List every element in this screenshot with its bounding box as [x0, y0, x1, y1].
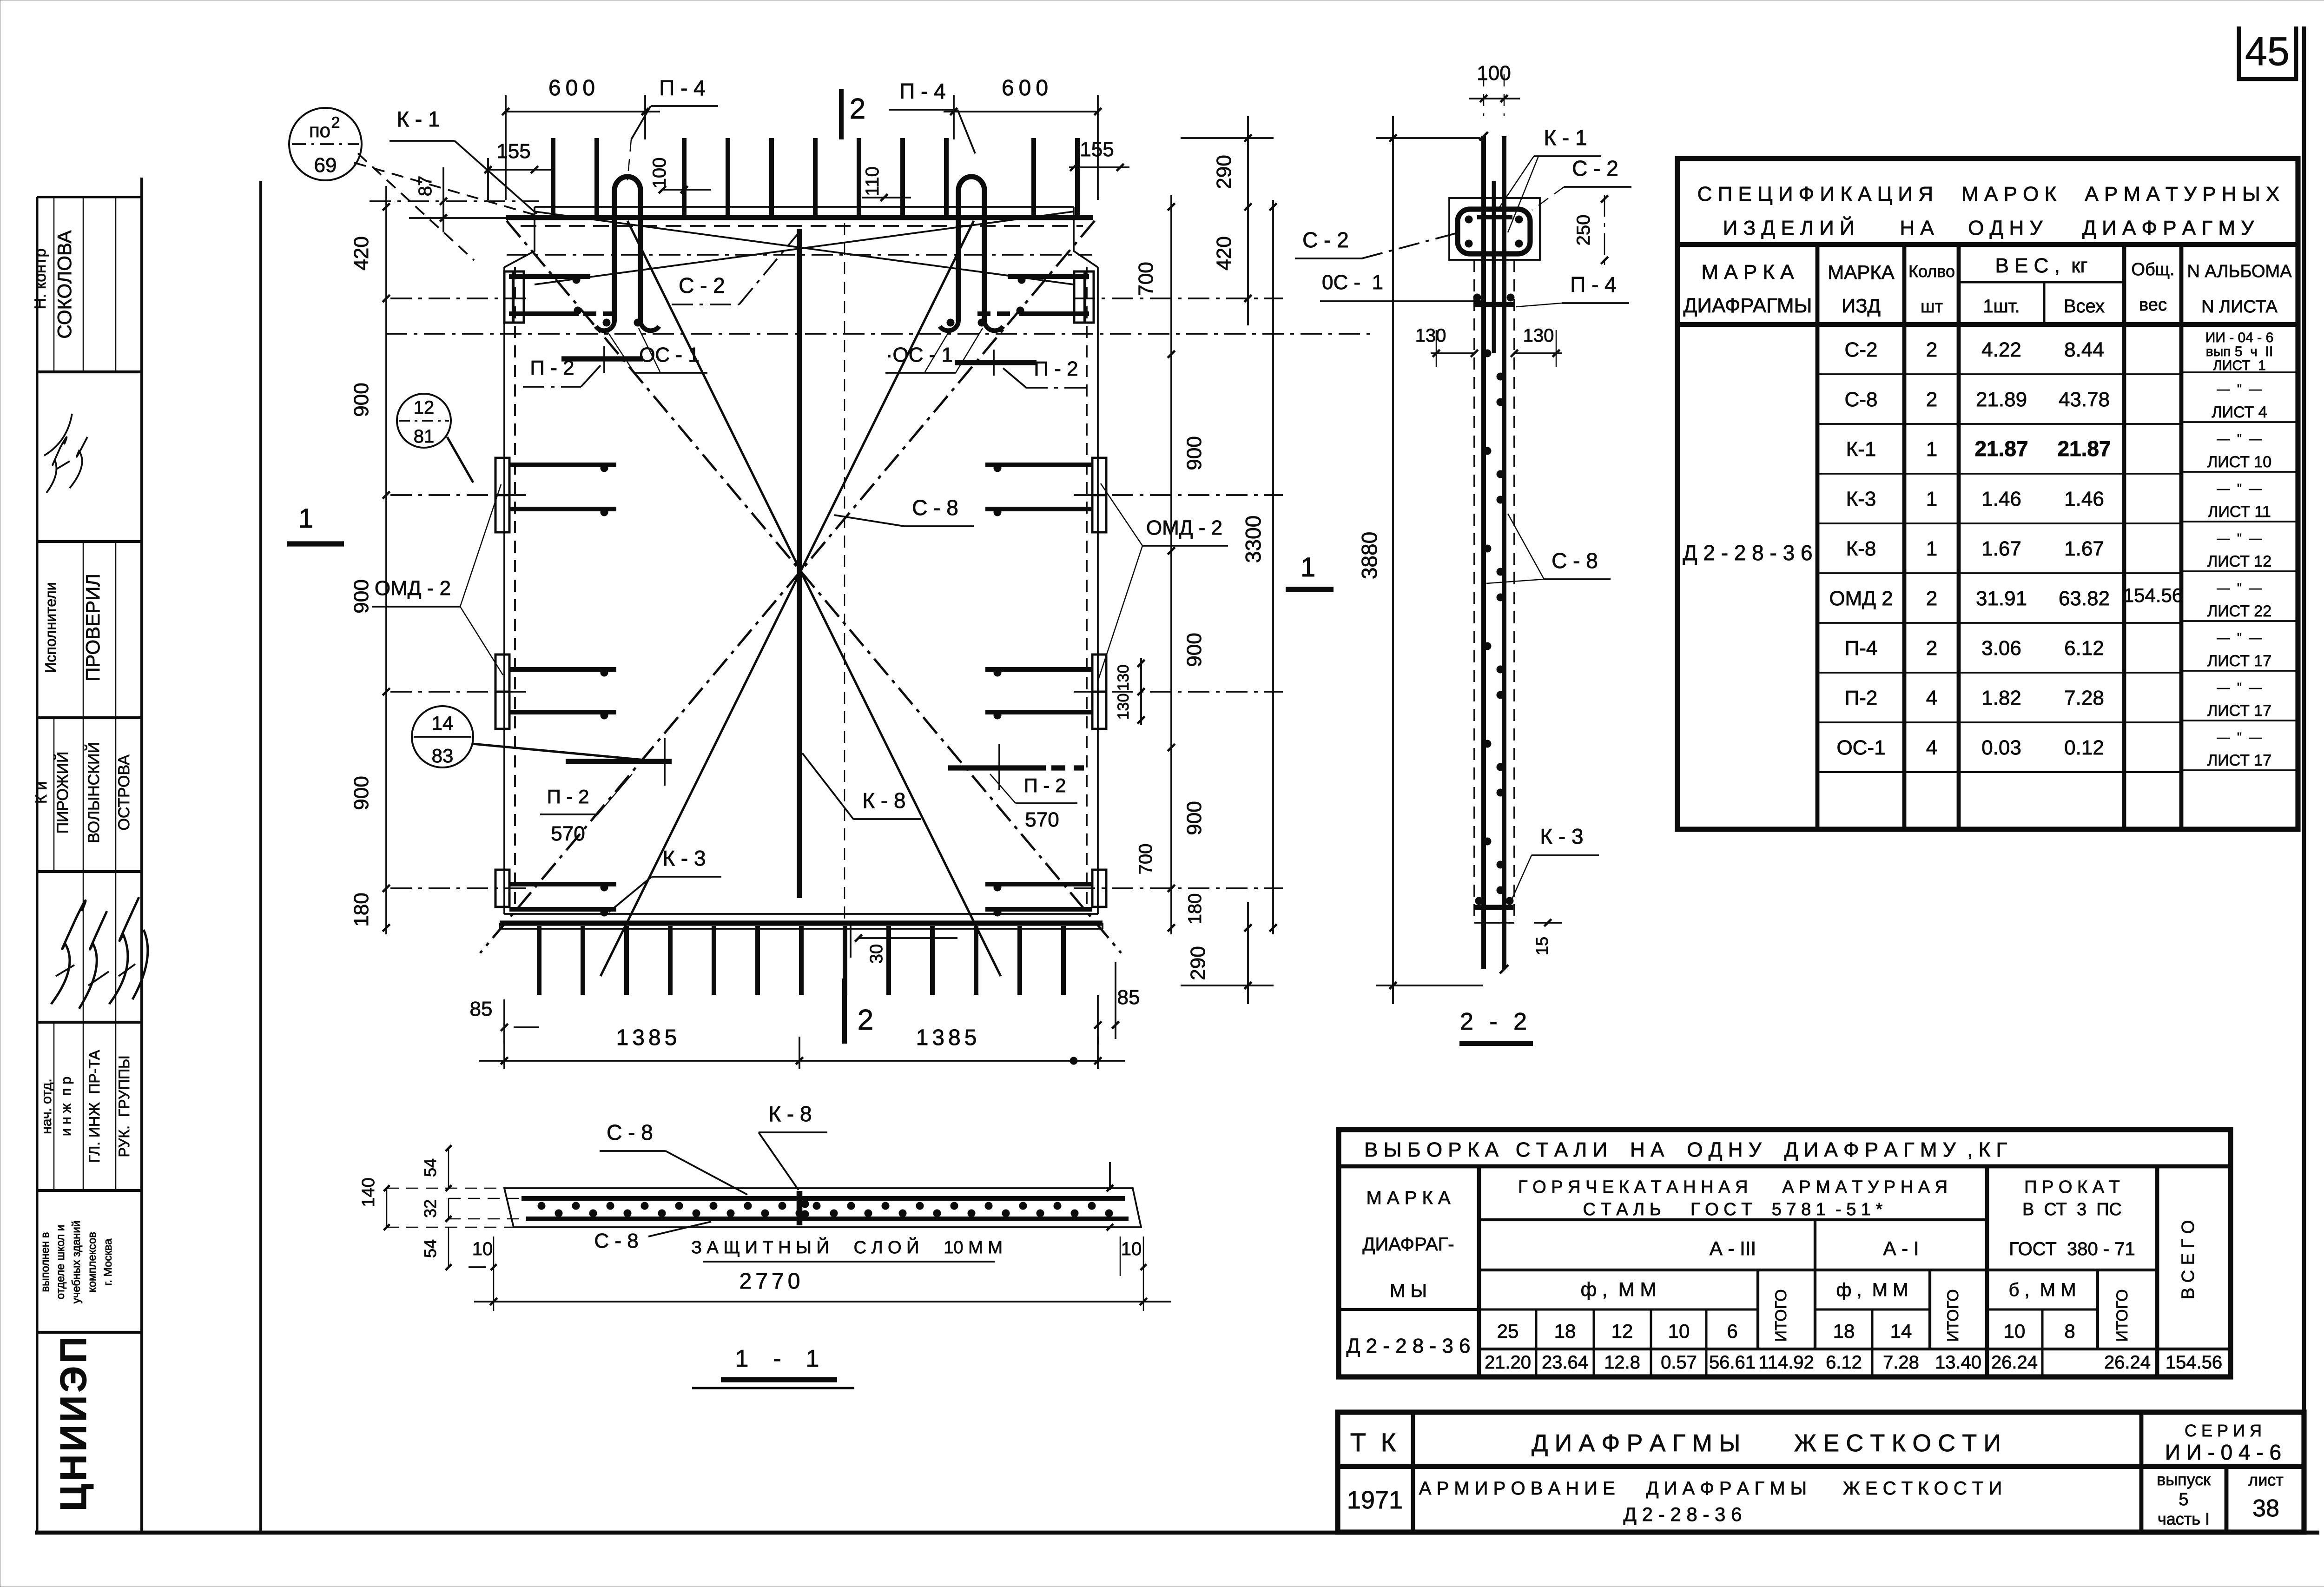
svg-text:— " —: — " — — [2217, 680, 2262, 694]
svg-text:570: 570 — [551, 822, 585, 845]
svg-text:1.46: 1.46 — [1981, 488, 2021, 510]
svg-text:С - 2: С - 2 — [1572, 156, 1618, 180]
svg-text:13.40: 13.40 — [1935, 1352, 1981, 1373]
svg-text:СОКОЛОВА: СОКОЛОВА — [53, 230, 75, 338]
steel table outer border — [1339, 1130, 2231, 1377]
section 2-2 tie near cage — [1477, 215, 1512, 219]
svg-text:ИТОГО: ИТОГО — [1772, 1289, 1790, 1342]
svg-text:шт: шт — [1921, 297, 1943, 317]
svg-text:С - 2: С - 2 — [1302, 228, 1349, 252]
svg-text:31.91: 31.91 — [1976, 587, 2027, 610]
svg-text:130: 130 — [1115, 694, 1132, 720]
steel table size cells — [1535, 1309, 1538, 1377]
svg-text:ИТОГО: ИТОГО — [1944, 1289, 1962, 1342]
svg-text:8: 8 — [2064, 1320, 2075, 1342]
svg-text:ГОСТ 380 - 71: ГОСТ 380 - 71 — [2009, 1239, 2135, 1259]
svg-text:по: по — [309, 119, 330, 141]
svg-text:600: 600 — [1002, 76, 1053, 100]
svg-text:900: 900 — [1183, 436, 1206, 470]
svg-text:П - 4: П - 4 — [899, 79, 946, 103]
svg-text:420: 420 — [1213, 236, 1235, 270]
svg-text:учебных зданий: учебных зданий — [70, 1221, 83, 1303]
sheet number box "45" — [2239, 26, 2296, 79]
svg-text:лист: лист — [2248, 1470, 2284, 1489]
svg-text:1шт.: 1шт. — [1983, 296, 2020, 317]
svg-text:— " —: — " — — [2217, 431, 2262, 446]
svg-text:14: 14 — [432, 712, 454, 734]
right dim chain B 290/420 — [1247, 116, 1249, 325]
svg-text:А - III: А - III — [1710, 1237, 1756, 1259]
spec table row lines — [1817, 373, 2181, 375]
svg-text:ЛИСТ 10: ЛИСТ 10 — [2207, 453, 2271, 471]
svg-text:К-8: К-8 — [1846, 537, 1876, 560]
central vertical bar K-8 — [797, 229, 802, 898]
svg-text:Т К: Т К — [1350, 1428, 1400, 1457]
svg-text:ИТОГО: ИТОГО — [2113, 1289, 2131, 1342]
svg-text:— " —: — " — — [2217, 382, 2262, 396]
svg-text:0.12: 0.12 — [2064, 736, 2104, 759]
svg-text:100: 100 — [1477, 62, 1511, 85]
svg-text:Общ.: Общ. — [2131, 260, 2174, 279]
svg-text:М Ы: М Ы — [1390, 1281, 1427, 1301]
svg-text:П - 4: П - 4 — [659, 76, 706, 100]
svg-text:ЛИСТ 17: ЛИСТ 17 — [2207, 652, 2271, 670]
P-2 side bars left — [509, 463, 616, 467]
svg-text:2: 2 — [858, 1004, 873, 1036]
svg-text:Д 2 - 2 8 - 3 6: Д 2 - 2 8 - 3 6 — [1624, 1503, 1742, 1525]
callout circle po2/69 — [289, 108, 362, 180]
svg-text:570: 570 — [1025, 808, 1059, 831]
svg-text:С-2: С-2 — [1845, 338, 1878, 361]
svg-text:Д 2 - 2 8 - 3 6: Д 2 - 2 8 - 3 6 — [1346, 1335, 1470, 1357]
svg-text:250: 250 — [1573, 215, 1594, 246]
svg-text:180: 180 — [350, 893, 373, 926]
svg-text:1: 1 — [1926, 438, 1937, 461]
svg-text:110: 110 — [862, 166, 883, 196]
spec table outer border — [1677, 159, 2298, 829]
svg-text:900: 900 — [350, 776, 373, 810]
dim 600 left top — [506, 111, 660, 112]
svg-text:130: 130 — [1523, 325, 1554, 346]
svg-text:2: 2 — [1926, 637, 1937, 660]
svg-text:140: 140 — [359, 1177, 378, 1207]
svg-text:1: 1 — [1301, 552, 1315, 582]
svg-text:130: 130 — [1115, 665, 1132, 691]
svg-text:54: 54 — [421, 1158, 440, 1177]
svg-text:6.12: 6.12 — [2064, 637, 2104, 660]
svg-text:21.87: 21.87 — [1974, 436, 2028, 461]
svg-text:85: 85 — [1117, 986, 1140, 1009]
svg-text:25: 25 — [1497, 1320, 1519, 1342]
svg-text:12.8: 12.8 — [1604, 1352, 1640, 1373]
svg-text:4.22: 4.22 — [1981, 338, 2021, 361]
svg-text:ф , М М: ф , М М — [1581, 1278, 1657, 1300]
svg-text:В СТ 3 ПС: В СТ 3 ПС — [2022, 1200, 2122, 1219]
svg-text:ЛИСТ 22: ЛИСТ 22 — [2207, 602, 2271, 620]
svg-text:1.82: 1.82 — [1981, 687, 2021, 709]
svg-text:7.28: 7.28 — [1883, 1352, 1919, 1373]
svg-text:83: 83 — [432, 745, 454, 767]
svg-text:21.87: 21.87 — [2057, 436, 2111, 461]
svg-text:32: 32 — [421, 1199, 440, 1218]
dim 600 right top — [944, 111, 1098, 112]
bottom protruding dowels — [537, 926, 541, 995]
strip signature scribbles block 1 — [46, 437, 66, 493]
svg-text:К - 3: К - 3 — [1540, 824, 1583, 848]
svg-text:ПРОВЕРИЛ: ПРОВЕРИЛ — [82, 574, 104, 681]
svg-text:63.82: 63.82 — [2059, 587, 2110, 610]
svg-text:1971: 1971 — [1347, 1486, 1403, 1514]
P-2 570 bars lower — [566, 759, 672, 764]
svg-text:1 - 1: 1 - 1 — [735, 1345, 823, 1372]
svg-text:420: 420 — [350, 236, 373, 270]
svg-text:выпуск: выпуск — [2157, 1470, 2211, 1489]
svg-text:10: 10 — [1121, 1239, 1142, 1259]
svg-text:М А Р К А: М А Р К А — [1701, 261, 1794, 284]
svg-text:И И - 0 4 - 6: И И - 0 4 - 6 — [2165, 1440, 2281, 1464]
svg-text:900: 900 — [350, 383, 373, 417]
svg-text:154.56: 154.56 — [2123, 584, 2183, 606]
svg-text:К-3: К-3 — [1846, 488, 1876, 510]
svg-text:700: 700 — [1135, 262, 1157, 296]
svg-text:ДИАФРАГМЫ: ДИАФРАГМЫ — [1684, 294, 1812, 317]
svg-text:ОМД - 2: ОМД - 2 — [1146, 516, 1222, 539]
svg-text:ЛИСТ 11: ЛИСТ 11 — [2208, 503, 2271, 521]
svg-text:10: 10 — [2004, 1320, 2026, 1342]
svg-text:С - 8: С - 8 — [607, 1120, 653, 1144]
svg-text:выполнен в: выполнен в — [39, 1232, 52, 1292]
section 2-2 dim 15 — [1534, 922, 1562, 924]
svg-text:1: 1 — [298, 503, 313, 534]
svg-text:комплексов: комплексов — [86, 1232, 99, 1292]
sheet frame left inner border — [259, 181, 262, 1533]
svg-text:2: 2 — [1926, 388, 1937, 411]
steel table main verticals — [1477, 1166, 1481, 1377]
steep diagonals C-8 — [627, 221, 1001, 976]
svg-text:П - 2: П - 2 — [1034, 357, 1078, 380]
svg-text:Исполнители: Исполнители — [42, 582, 59, 673]
title strip block lines — [53, 197, 55, 372]
svg-text:нач. отд.: нач. отд. — [39, 1078, 54, 1134]
callout circle 14/83 — [412, 706, 473, 767]
svg-text:700: 700 — [1136, 844, 1156, 875]
section 1-1 outline — [504, 1188, 1141, 1227]
svg-text:N АЛЬБОМА: N АЛЬБОМА — [2187, 262, 2292, 281]
svg-text:П - 2: П - 2 — [1024, 774, 1066, 796]
svg-text:1385: 1385 — [916, 1025, 981, 1050]
P-2 top bar left — [561, 356, 643, 361]
svg-text:ИИ - 04 - 6: ИИ - 04 - 6 — [2205, 330, 2274, 345]
hairpin P-4 right — [958, 177, 984, 321]
svg-text:155: 155 — [496, 140, 530, 163]
dim 155 left — [488, 169, 553, 171]
section 1-1 bar dots — [538, 1202, 545, 1210]
dim 130 130 right — [1140, 658, 1142, 725]
svg-text:·ОС - 1: ·ОС - 1 — [886, 344, 953, 366]
svg-text:7.28: 7.28 — [2064, 687, 2104, 709]
section 2-2 bottom tie K-3 — [1475, 905, 1513, 910]
svg-text:С Е Р И Я: С Е Р И Я — [2185, 1421, 2262, 1440]
svg-text:81: 81 — [414, 426, 435, 447]
svg-text:ЛИСТ 4: ЛИСТ 4 — [2212, 403, 2267, 421]
svg-text:К - 8: К - 8 — [862, 788, 905, 813]
svg-text:1.46: 1.46 — [2064, 488, 2104, 510]
svg-text:С Т А Л Ь Г О С Т 5 7: С Т А Л Ь Г О С Т 5 7 8 1 - 5 1 * — [1583, 1200, 1883, 1219]
section 2-2 cage C-2 — [1458, 209, 1530, 254]
spec table header lines — [1677, 242, 2298, 247]
svg-text:вып 5 ч II: вып 5 ч II — [2206, 344, 2273, 359]
svg-text:10: 10 — [1668, 1320, 1690, 1342]
section 2-2 dim 250 — [1604, 195, 1605, 267]
svg-text:100: 100 — [649, 158, 670, 189]
svg-text:12: 12 — [1611, 1320, 1633, 1342]
svg-text:10: 10 — [472, 1239, 493, 1259]
svg-text:45: 45 — [2245, 29, 2290, 74]
section 2-2 tie P-4 — [1473, 302, 1514, 307]
section mark 2 top — [839, 89, 844, 139]
dashdot grid line at OC-1 level — [386, 333, 1373, 335]
svg-text:ДИАФРАГ-: ДИАФРАГ- — [1362, 1234, 1454, 1255]
sheet frame bottom border — [35, 1531, 2319, 1535]
svg-text:К и: К и — [33, 781, 50, 804]
svg-text:54: 54 — [421, 1239, 440, 1258]
svg-text:2: 2 — [331, 114, 340, 132]
svg-text:2: 2 — [1926, 338, 1937, 361]
svg-text:26.24: 26.24 — [2104, 1352, 2151, 1373]
svg-text:2: 2 — [1926, 587, 1937, 610]
svg-text:2770: 2770 — [739, 1269, 804, 1294]
top protruding dowels — [551, 138, 555, 218]
svg-text:3300: 3300 — [1241, 516, 1265, 563]
svg-text:114.92: 114.92 — [1758, 1352, 1814, 1373]
svg-text:С - 2: С - 2 — [679, 273, 725, 298]
svg-text:Н. контр: Н. контр — [32, 249, 49, 310]
svg-text:14: 14 — [1890, 1320, 1912, 1342]
svg-text:В Е С , кг: В Е С , кг — [1995, 254, 2087, 277]
title strip row dividers — [37, 370, 142, 373]
svg-text:900: 900 — [1183, 633, 1206, 667]
svg-text:0.03: 0.03 — [1981, 736, 2021, 759]
panel outline bottom — [504, 913, 1098, 915]
svg-text:П-4: П-4 — [1845, 637, 1878, 660]
svg-text:2 - 2: 2 - 2 — [1460, 1008, 1532, 1035]
svg-text:А Р М И Р О В А Н И Е Д И: А Р М И Р О В А Н И Е Д И А Ф Р А Г М Ы … — [1419, 1478, 2002, 1499]
beam cross lines — [535, 212, 1074, 284]
svg-text:— " —: — " — — [2217, 531, 2262, 545]
svg-text:ГЛ. ИНЖ ПР-ТА: ГЛ. ИНЖ ПР-ТА — [86, 1050, 103, 1163]
svg-text:900: 900 — [350, 579, 373, 613]
svg-text:В С Е Г О: В С Е Г О — [2179, 1220, 2198, 1300]
section 1-1 right slant ticks — [1109, 1162, 1111, 1190]
svg-text:Г О Р Я Ч Е К А Т А Н Н А Я: Г О Р Я Ч Е К А Т А Н Н А Я А Р М А Т У … — [1518, 1177, 1948, 1197]
svg-text:3.06: 3.06 — [1981, 637, 2021, 660]
svg-text:23.64: 23.64 — [1542, 1352, 1588, 1373]
svg-text:180: 180 — [1185, 893, 1205, 925]
svg-text:154.56: 154.56 — [2166, 1352, 2222, 1373]
svg-text:1.67: 1.67 — [2064, 537, 2104, 560]
svg-text:1385: 1385 — [616, 1025, 681, 1050]
svg-text:0.57: 0.57 — [1661, 1352, 1697, 1373]
svg-text:Д И А Ф Р А Г М Ы Ж Е С: Д И А Ф Р А Г М Ы Ж Е С Т К О С Т И — [1532, 1430, 2001, 1457]
svg-text:б , М М: б , М М — [2008, 1280, 2076, 1300]
svg-text:ЛИСТ 17: ЛИСТ 17 — [2207, 752, 2271, 769]
section 1-1 top bar C-8 — [522, 1196, 1125, 1201]
svg-text:К-1: К-1 — [1846, 438, 1876, 461]
svg-text:69: 69 — [314, 154, 337, 177]
P-2 top bar right — [955, 360, 1037, 365]
svg-text:N ЛИСТА: N ЛИСТА — [2201, 297, 2278, 317]
svg-text:ОМД - 2: ОМД - 2 — [375, 577, 451, 600]
svg-text:ОМД 2: ОМД 2 — [1829, 587, 1893, 610]
svg-text:900: 900 — [1183, 801, 1206, 835]
svg-text:часть I: часть I — [2158, 1509, 2210, 1528]
section 2-2 middle bar K-1 — [1492, 181, 1496, 353]
svg-text:вес: вес — [2139, 295, 2167, 315]
svg-text:ОСТРОВА: ОСТРОВА — [115, 754, 133, 831]
panel outline top beam — [535, 206, 1074, 208]
svg-text:1: 1 — [1926, 537, 1937, 560]
inner dashed cage outline — [514, 267, 516, 909]
section 2-2 main bars — [1481, 136, 1486, 969]
section 2-2 dim 100 — [1469, 98, 1520, 99]
svg-text:М А Р К А: М А Р К А — [1366, 1188, 1450, 1208]
chain 3880 — [1392, 116, 1394, 1004]
svg-text:РУК. ГРУППЫ: РУК. ГРУППЫ — [116, 1056, 132, 1157]
svg-text:15: 15 — [1532, 937, 1552, 955]
svg-text:МАРКА: МАРКА — [1828, 261, 1895, 283]
svg-text:ВОЛЫНСКИЙ: ВОЛЫНСКИЙ — [85, 742, 103, 843]
svg-text:З А Щ И Т Н Ы Й С Л О Й: З А Щ И Т Н Ы Й С Л О Й 10 М М — [691, 1237, 1003, 1257]
svg-text:И З Д Е Л И Й Н А: И З Д Е Л И Й Н А О Д Н У Д И А Ф Р А Г … — [1723, 216, 2255, 239]
svg-text:21.20: 21.20 — [1485, 1352, 1531, 1373]
svg-text:А - I: А - I — [1883, 1237, 1919, 1259]
dashdot line across beam bottom — [507, 254, 1092, 256]
sheet frame right border — [2302, 26, 2306, 1533]
svg-text:П - 2: П - 2 — [547, 786, 589, 807]
svg-text:Колво: Колво — [1908, 262, 1955, 281]
svg-text:К - 3: К - 3 — [662, 846, 706, 870]
svg-text:290: 290 — [1187, 946, 1209, 980]
svg-text:4: 4 — [1926, 736, 1937, 759]
svg-text:2: 2 — [850, 93, 865, 125]
svg-text:3880: 3880 — [1357, 532, 1381, 579]
svg-text:К - 1: К - 1 — [396, 107, 440, 131]
svg-text:С - 8: С - 8 — [594, 1230, 638, 1252]
svg-text:85: 85 — [470, 998, 493, 1020]
right chain C 3300 — [1272, 200, 1274, 934]
svg-text:ЦНИИЭП: ЦНИИЭП — [53, 1334, 94, 1511]
bottom dim 1385+1385 — [479, 1060, 1125, 1062]
section 1-1 bottom bar C-8 — [526, 1217, 1129, 1221]
svg-text:1: 1 — [1926, 488, 1937, 510]
svg-text:П Р О К А Т: П Р О К А Т — [2024, 1177, 2120, 1197]
steel table values row — [1479, 1348, 2231, 1350]
svg-text:5: 5 — [2179, 1490, 2188, 1509]
panel outline sides — [503, 267, 505, 914]
svg-text:ЛИСТ 12: ЛИСТ 12 — [2207, 553, 2271, 570]
right dim chain A — [1170, 195, 1172, 934]
hairpin P-4 left — [614, 177, 640, 321]
svg-text:С-8: С-8 — [1845, 388, 1878, 411]
svg-text:П - 4: П - 4 — [1570, 272, 1617, 297]
svg-text:ИЗД: ИЗД — [1842, 295, 1881, 317]
svg-text:21.89: 21.89 — [1976, 388, 2027, 411]
svg-text:26.24: 26.24 — [1991, 1352, 2038, 1373]
svg-text:38: 38 — [2252, 1495, 2279, 1522]
svg-text:4: 4 — [1926, 687, 1937, 709]
svg-text:6: 6 — [1727, 1320, 1737, 1342]
svg-text:отделе школ и: отделе школ и — [54, 1225, 67, 1300]
svg-text:П - 2: П - 2 — [530, 357, 574, 379]
strip signature scribbles block 2 — [51, 900, 86, 1004]
OMD-2 plates right — [1092, 458, 1106, 495]
svg-text:43.78: 43.78 — [2059, 388, 2110, 411]
svg-text:1.67: 1.67 — [1981, 537, 2021, 560]
svg-text:56.61: 56.61 — [1709, 1352, 1756, 1373]
svg-text:Д 2 - 2 8 - 3 6: Д 2 - 2 8 - 3 6 — [1683, 541, 1812, 565]
P-2 side bars right — [985, 463, 1092, 467]
dim 87 top-left — [370, 200, 539, 202]
section cut 2-2 dashed vertical — [844, 223, 845, 974]
section 2-2 bar dots — [1484, 350, 1491, 357]
section mark 2 bottom — [842, 979, 847, 1044]
svg-text:290: 290 — [1213, 155, 1235, 189]
svg-text:К - 1: К - 1 — [1544, 126, 1587, 150]
svg-text:С - 8: С - 8 — [1552, 549, 1598, 573]
title strip outer lines — [36, 197, 39, 1533]
svg-text:155: 155 — [1080, 138, 1114, 161]
OS-1 assemblies top left — [509, 274, 590, 279]
svg-text:— " —: — " — — [2217, 581, 2262, 595]
OMD-2 plates left — [495, 458, 509, 495]
svg-text:ф , М М: ф , М М — [1836, 1280, 1908, 1300]
svg-text:12: 12 — [414, 397, 435, 418]
left dim chain — [385, 186, 387, 934]
svg-text:ЛИСТ 17: ЛИСТ 17 — [2207, 702, 2271, 720]
svg-text:ОС-1: ОС-1 — [1836, 736, 1885, 759]
svg-text:В Ы Б О Р К А С Т А Л И Н: В Ы Б О Р К А С Т А Л И Н А О Д Н У Д И … — [1364, 1138, 2007, 1161]
OS-1 assemblies top right — [1008, 274, 1089, 279]
svg-text:Всех: Всех — [2064, 296, 2105, 317]
section 1-1 center K-8 — [797, 1191, 803, 1225]
svg-text:С П Е Ц И Ф И К А Ц И Я М: С П Е Ц И Ф И К А Ц И Я М А Р О К А Р М … — [1697, 183, 2280, 205]
svg-text:130: 130 — [1415, 325, 1446, 346]
section mark tick top of 2-2 — [1479, 132, 1488, 140]
svg-text:К - 8: К - 8 — [768, 1102, 812, 1126]
dim 155 right — [1069, 166, 1129, 168]
svg-text:ПИРОЖИЙ: ПИРОЖИЙ — [54, 752, 72, 834]
main diagonals dashdot — [507, 221, 1121, 953]
svg-text:ЛИСТ 1: ЛИСТ 1 — [2213, 358, 2266, 373]
section 2-2 flange outline — [1449, 198, 1540, 260]
svg-text:30: 30 — [867, 944, 886, 964]
grid dashdot stubs left/right — [390, 298, 528, 299]
svg-text:18: 18 — [1833, 1320, 1855, 1342]
svg-text:г. Москва: г. Москва — [102, 1238, 114, 1286]
svg-text:— " —: — " — — [2217, 730, 2262, 744]
svg-text:— " —: — " — — [2217, 630, 2262, 645]
svg-text:8.44: 8.44 — [2064, 338, 2104, 361]
svg-text:6.12: 6.12 — [1826, 1352, 1862, 1373]
section 1-1 dim 2770 — [474, 1301, 1171, 1303]
svg-text:600: 600 — [548, 76, 600, 100]
svg-text:18: 18 — [1554, 1320, 1576, 1342]
svg-text:С - 8: С - 8 — [912, 496, 958, 520]
svg-text:и н ж п р: и н ж п р — [59, 1077, 74, 1136]
K-1 top bar — [506, 215, 1093, 220]
callout circle 12/81 — [397, 394, 451, 448]
title block outer — [1338, 1412, 2304, 1532]
